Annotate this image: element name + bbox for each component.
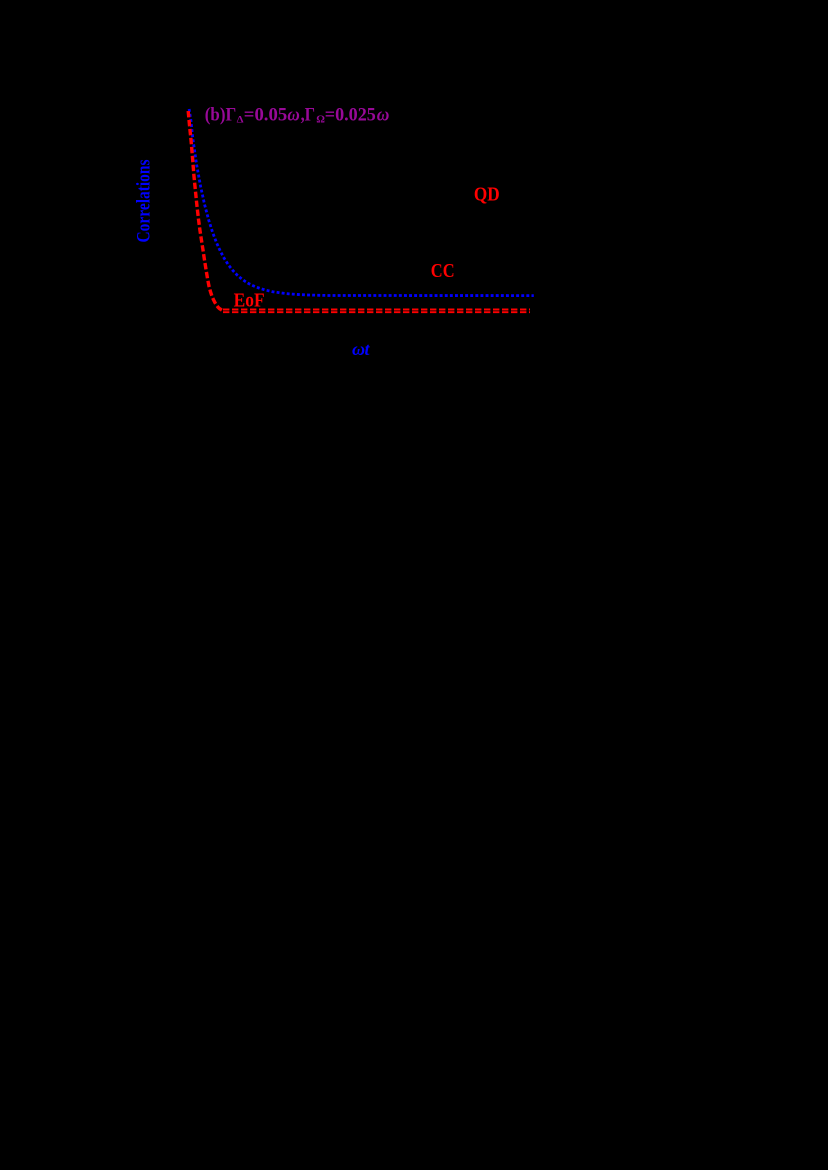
svg-text:EoF: EoF bbox=[234, 291, 265, 312]
blue dotted curve CC bbox=[189, 107, 534, 296]
svg-text:(b)Γ: (b)Γ bbox=[205, 104, 236, 125]
title (b)Gamma_Delta=0.05w,Gamma_Omega=0.025w bbox=[205, 104, 390, 125]
red dashed curve EoF (descending part) bbox=[188, 111, 222, 311]
svg-text:Ω: Ω bbox=[316, 114, 325, 125]
svg-text:ωt: ωt bbox=[352, 339, 370, 359]
svg-text:CC: CC bbox=[431, 261, 455, 282]
svg-text:ω: ω bbox=[377, 104, 390, 125]
svg-text:=0.05: =0.05 bbox=[244, 104, 287, 125]
svg-text:QD: QD bbox=[474, 184, 500, 205]
red dashed curve EoF (flat part, lower stroke) bbox=[223, 311, 530, 313]
svg-text:,Γ: ,Γ bbox=[301, 104, 316, 125]
svg-text:ω: ω bbox=[287, 104, 300, 125]
svg-text:=0.025: =0.025 bbox=[325, 104, 376, 125]
red dashed curve EoF (flat part, upper stroke) bbox=[223, 309, 530, 311]
svg-text:Correlations: Correlations bbox=[134, 160, 155, 243]
